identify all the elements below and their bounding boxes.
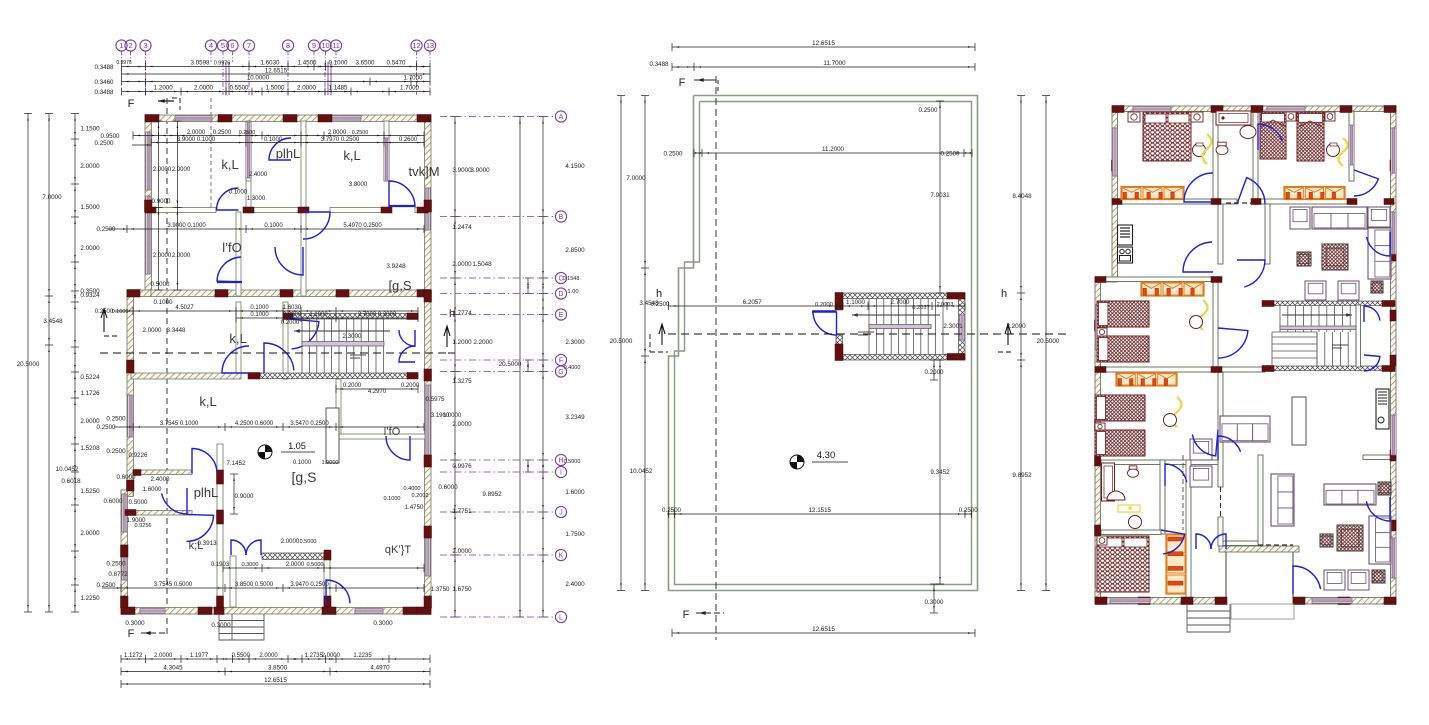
svg-text:0.1000: 0.1000	[383, 496, 400, 502]
svg-text:3.8500: 3.8500	[268, 665, 288, 672]
svg-text:0.2500: 0.2500	[239, 130, 256, 136]
grid bubble 1	[116, 40, 127, 51]
svg-text:0.4000: 0.4000	[403, 486, 420, 492]
door kL mid	[222, 346, 249, 373]
svg-text:2.0000: 2.0000	[154, 653, 173, 659]
svg-text:1: 1	[119, 41, 123, 50]
chimney duct	[326, 408, 339, 463]
rp door bath2	[1165, 464, 1187, 486]
svg-text:4.2500 0.6000: 4.2500 0.6000	[235, 421, 274, 427]
door lfO	[275, 247, 303, 275]
middle left chain	[644, 96, 646, 591]
middle plan inner outline	[675, 102, 972, 585]
rp bed2 single b	[1297, 112, 1324, 161]
rp window left 2	[1096, 305, 1101, 350]
svg-text:1.3000: 1.3000	[247, 196, 266, 202]
rp wall y199	[1117, 199, 1237, 204]
rp wall x1213	[1213, 111, 1218, 204]
svg-text:tvk]M: tvk]M	[408, 164, 439, 179]
svg-text:9.8952: 9.8952	[482, 491, 502, 498]
rp armchair pair 1	[1305, 281, 1326, 300]
svg-text:5.4970 0.2500: 5.4970 0.2500	[343, 223, 382, 229]
right chain inner	[454, 117, 456, 618]
stair rail	[302, 342, 384, 347]
svg-text:2.8500: 2.8500	[565, 247, 585, 254]
svg-text:11.7000: 11.7000	[823, 60, 846, 67]
left plan left wall lower	[121, 490, 128, 614]
svg-text:1.9000: 1.9000	[321, 460, 338, 466]
svg-text:1.00: 1.00	[567, 289, 578, 295]
datum 1.05	[258, 445, 272, 459]
svg-text:0.5500: 0.5500	[230, 85, 249, 92]
grid bubble 8	[282, 40, 293, 51]
column blocks left wall	[145, 200, 153, 212]
rp wardrobe 2	[1284, 187, 1345, 200]
svg-text:4.2970: 4.2970	[368, 389, 387, 395]
rp wall x1349	[1349, 111, 1354, 181]
door lfO2	[217, 257, 242, 282]
svg-text:2.0000: 2.0000	[259, 653, 278, 659]
svg-text:9.8952: 9.8952	[1012, 472, 1032, 479]
rp sofa3 mid	[1220, 416, 1270, 442]
wall V below M door	[230, 556, 236, 607]
svg-text:2.0000: 2.0000	[328, 130, 347, 136]
svg-text:2.0000: 2.0000	[452, 421, 472, 428]
wall V8 x218 bottom vertical	[217, 444, 223, 607]
window top wall 1	[175, 116, 212, 121]
rp sofa vert right2	[1369, 516, 1391, 564]
svg-text:0.1000: 0.1000	[264, 223, 283, 229]
svg-text:1.1500: 1.1500	[80, 126, 100, 133]
svg-text:0.9500: 0.9500	[101, 133, 120, 140]
rp seat c	[1190, 439, 1212, 460]
rp chair circle 5	[1129, 516, 1142, 529]
svg-text:20.5000: 20.5000	[610, 338, 633, 345]
svg-text:7.9031: 7.9031	[930, 192, 950, 199]
svg-text:4.4970: 4.4970	[370, 665, 390, 672]
grid bubble 10	[320, 40, 331, 51]
left plan stair top wall	[289, 314, 418, 320]
window left wall upper	[146, 132, 151, 190]
svg-text:0.2500: 0.2500	[662, 507, 681, 514]
rp nightstand 6	[1095, 423, 1105, 430]
grid bubble 9	[308, 40, 319, 51]
svg-text:I: I	[560, 470, 562, 477]
dim row y389	[336, 388, 418, 390]
svg-text:11: 11	[332, 41, 340, 50]
wall H6 y436 lfO bottom	[336, 434, 425, 439]
svg-text:0.2500: 0.2500	[97, 424, 116, 431]
svg-text:2.3000: 2.3000	[565, 339, 585, 346]
door plhL bottom 2	[162, 488, 187, 514]
rp window top 2	[1267, 107, 1305, 112]
svg-text:2.0000: 2.0000	[194, 85, 213, 92]
rp seat a	[1290, 207, 1310, 229]
svg-text:[g,S: [g,S	[292, 469, 317, 485]
svg-text:2.0003: 2.0003	[937, 302, 954, 308]
rp door bath top	[1258, 124, 1282, 150]
rp sink top	[1240, 126, 1256, 139]
door M double	[231, 540, 246, 555]
svg-text:1.7500: 1.7500	[565, 531, 585, 538]
svg-text:0.2000: 0.2000	[281, 320, 300, 326]
rp yellow door 1	[1203, 134, 1212, 164]
svg-text:2.2000: 2.2000	[473, 339, 493, 346]
middle stair bottom wall	[836, 355, 965, 361]
svg-text:l’fO: l’fO	[384, 426, 401, 438]
svg-text:1.05: 1.05	[288, 441, 306, 451]
rp blocks right wall	[1390, 160, 1396, 171]
svg-text:0.2500: 0.2500	[959, 507, 978, 514]
svg-text:13: 13	[426, 41, 434, 50]
bottom dim row 1	[121, 658, 430, 660]
svg-text:4.5027: 4.5027	[175, 305, 194, 311]
rp big double bed	[1097, 536, 1149, 592]
svg-text:2.0000: 2.0000	[452, 261, 472, 268]
svg-text:1.6000: 1.6000	[565, 489, 585, 496]
rp duct	[1292, 397, 1306, 445]
svg-text:0.5000: 0.5000	[299, 539, 316, 545]
svg-text:2.0000: 2.0000	[80, 530, 100, 537]
rp bathtub top	[1216, 111, 1251, 125]
left plan bottom wall	[121, 608, 431, 615]
rp porch slab	[1231, 604, 1294, 619]
middle stair arrow	[852, 314, 940, 316]
stair left plan risers	[301, 319, 303, 373]
svg-text:2.0000: 2.0000	[80, 418, 100, 425]
svg-text:0.1000: 0.1000	[250, 305, 269, 311]
middle bottom dim	[672, 632, 975, 634]
rp chair circle 1	[1193, 144, 1206, 157]
rp nightstand 3	[1286, 112, 1296, 121]
window top wall 2	[330, 116, 361, 121]
svg-text:3.2349: 3.2349	[565, 414, 585, 421]
svg-text:h: h	[656, 288, 662, 300]
svg-text:plhL: plhL	[276, 146, 301, 161]
svg-text:3.9000 0.1000: 3.9000 0.1000	[177, 137, 216, 143]
rp wall x1218 vert hall	[1218, 204, 1223, 264]
svg-text:3.8000: 3.8000	[349, 182, 368, 188]
svg-text:1.2235: 1.2235	[353, 653, 372, 659]
door stair entry	[289, 319, 319, 349]
grid bubble 11	[330, 40, 341, 51]
rp wall y545 center	[1223, 541, 1258, 546]
wall H kL bottom y510	[121, 511, 192, 516]
top dim row 1	[122, 66, 431, 68]
middle dim 7.9031	[939, 101, 941, 293]
svg-text:0.2500: 0.2500	[106, 561, 126, 568]
bottom dim row 3	[121, 683, 430, 685]
rp stair arrow	[1282, 314, 1352, 316]
rp side table 2	[1371, 281, 1383, 293]
svg-text:2.0000: 2.0000	[297, 85, 316, 92]
svg-text:0.1000: 0.1000	[112, 309, 129, 315]
rp toilet 2	[1128, 469, 1139, 478]
svg-text:0.2017: 0.2017	[912, 305, 930, 311]
svg-text:2.0000: 2.0000	[172, 167, 191, 173]
middle stair left wall	[836, 293, 843, 310]
rp yellow door 3	[1199, 300, 1208, 330]
svg-text:2.3000: 2.3000	[343, 333, 362, 340]
svg-text:1.5000: 1.5000	[266, 85, 285, 92]
rp fridge	[1118, 225, 1133, 245]
svg-text:0.1903: 0.1903	[211, 562, 230, 568]
svg-text:0.6018: 0.6018	[61, 478, 81, 485]
svg-text:4.1500: 4.1500	[565, 163, 585, 170]
wall V6 x241 kL mid right	[236, 302, 241, 373]
grid bubble 3	[140, 40, 151, 51]
rp nightstand 5	[1097, 328, 1107, 336]
rp window right 4	[1391, 538, 1396, 578]
door plhL bottom 1	[192, 449, 217, 474]
svg-text:2.0000: 2.0000	[153, 253, 172, 259]
middle stair door	[813, 312, 837, 336]
svg-text:1.7751: 1.7751	[452, 508, 472, 515]
rp door living right	[1366, 497, 1390, 521]
rp sink 2	[1107, 491, 1125, 500]
right chain 20.5000	[519, 117, 521, 618]
svg-text:1.2474: 1.2474	[452, 224, 472, 231]
middle stair dashes	[858, 331, 874, 333]
dim row y568	[223, 567, 424, 569]
svg-text:0.3488: 0.3488	[95, 64, 114, 71]
svg-text:0.2500: 0.2500	[941, 151, 960, 158]
svg-text:2.4000: 2.4000	[151, 476, 170, 483]
svg-text:0.1000: 0.1000	[154, 299, 173, 306]
right plan bottom wall left	[1095, 598, 1226, 605]
rp wall x1213b	[1213, 281, 1218, 367]
rp door bed4	[1192, 430, 1218, 456]
svg-text:20.5000: 20.5000	[17, 361, 40, 368]
svg-text:3.7545 0.5000: 3.7545 0.5000	[154, 582, 193, 588]
svg-text:3: 3	[143, 41, 147, 50]
windows bottom wall	[140, 609, 165, 614]
window right wall 3	[425, 538, 430, 576]
middle section dashed vertical	[715, 76, 717, 640]
svg-text:0.2000: 0.2000	[343, 383, 362, 389]
grid bubble 7	[243, 40, 254, 51]
svg-text:2.0000: 2.0000	[172, 253, 191, 259]
rp chair circle 3	[1190, 316, 1203, 329]
svg-text:7.0000: 7.0000	[626, 175, 646, 182]
svg-text:12.6515: 12.6515	[264, 677, 287, 684]
svg-text:0.5224: 0.5224	[80, 374, 100, 381]
rp window left 1	[1113, 128, 1118, 176]
svg-text:2.3001: 2.3001	[943, 323, 963, 330]
rp wall x1186	[1186, 460, 1191, 604]
svg-text:20.5000: 20.5000	[499, 361, 522, 368]
rp dashed opening 2	[1182, 455, 1184, 530]
svg-text:J: J	[559, 510, 563, 517]
svg-text:1.4500: 1.4500	[298, 60, 317, 67]
svg-text:0.2500: 0.2500	[106, 416, 126, 423]
door kL bottom	[187, 514, 214, 541]
svg-text:5: 5	[221, 41, 225, 50]
svg-text:7.0000: 7.0000	[42, 194, 62, 201]
svg-text:1.6030: 1.6030	[283, 305, 302, 311]
svg-text:K: K	[559, 553, 564, 560]
rp window right 2	[1391, 212, 1396, 254]
svg-text:2.0000: 2.0000	[143, 327, 162, 334]
svg-text:4: 4	[209, 41, 213, 50]
svg-text:0.1000: 0.1000	[293, 460, 312, 466]
rp door balcony	[1354, 170, 1378, 196]
rp wall y530	[1101, 530, 1161, 535]
svg-text:F: F	[128, 98, 135, 110]
svg-text:3.9000: 3.9000	[452, 167, 472, 174]
svg-text:1.1272: 1.1272	[124, 653, 143, 659]
svg-text:qK’}T: qK’}T	[385, 544, 412, 556]
rp wall y460	[1101, 460, 1218, 465]
wall H4 y553 hatch	[262, 553, 324, 560]
svg-text:0.6000: 0.6000	[117, 474, 136, 481]
svg-text:F: F	[128, 628, 135, 640]
svg-text:H: H	[558, 458, 563, 465]
rp blocks stair top	[1262, 301, 1274, 307]
door kL top-left	[217, 188, 239, 210]
rp blocks top wall	[1112, 106, 1124, 113]
rp toilet top	[1216, 145, 1228, 154]
rp sofa vert right	[1368, 228, 1391, 279]
svg-text:2.7000 0.2000: 2.7000 0.2000	[358, 312, 397, 318]
svg-text:[g,S: [g,S	[388, 278, 411, 293]
svg-text:2.0000: 2.0000	[153, 167, 172, 173]
svg-text:9.3452: 9.3452	[930, 469, 950, 476]
rp fridge 2	[1376, 389, 1389, 429]
column blocks interior bottom	[217, 470, 224, 484]
svg-text:1.7774: 1.7774	[452, 310, 472, 317]
svg-text:12.6515: 12.6515	[265, 68, 288, 75]
svg-text:1.3275: 1.3275	[452, 378, 472, 385]
svg-text:2: 2	[128, 41, 132, 50]
svg-text:0.3000: 0.3000	[373, 620, 393, 627]
grid line 12	[416, 62, 418, 95]
rp side table 1	[1297, 252, 1311, 266]
left plan step wall y490	[121, 490, 133, 497]
rp window bottom 1	[1110, 598, 1150, 603]
rp seat b	[1368, 207, 1390, 227]
middle top dim 12.6515	[672, 46, 975, 48]
rp stair lower flight	[1272, 336, 1317, 338]
window right wall 2	[425, 385, 430, 455]
wall H plhL top y470	[133, 470, 139, 475]
middle datum 4.30	[790, 455, 804, 469]
F section dashed line	[166, 98, 168, 637]
rp entrance steps	[1187, 604, 1230, 632]
grid dashed x211	[210, 98, 212, 207]
wall V7 x284 hall	[283, 302, 288, 379]
column blocks stair walls	[283, 313, 293, 320]
svg-text:0.9976: 0.9976	[116, 60, 132, 66]
svg-text:3.7970 0.2500: 3.7970 0.2500	[321, 137, 360, 143]
svg-text:1.1726: 1.1726	[80, 390, 100, 397]
window left wall lower	[122, 494, 127, 532]
wall V5 x306 gS left	[301, 212, 306, 296]
svg-text:0.3000: 0.3000	[125, 620, 145, 627]
left plan left wall upper	[145, 115, 152, 290]
svg-text:F: F	[559, 358, 563, 365]
rp dashed opening 3	[1258, 544, 1293, 546]
door tvkM	[389, 181, 415, 207]
rp wall x1265 hall	[1265, 204, 1270, 264]
svg-text:2.0000: 2.0000	[80, 245, 100, 252]
middle dim 9.3452	[939, 360, 941, 584]
svg-text:0.6000: 0.6000	[438, 484, 458, 491]
grid bubble 2	[125, 40, 136, 51]
wall H1 y207 upper rooms bottom	[151, 208, 216, 213]
rp door hall mid	[1237, 260, 1265, 287]
grid line 5-6 window shaft	[222, 62, 224, 95]
rp door bed1	[1184, 173, 1213, 202]
rp door y460	[1218, 436, 1241, 460]
rp window left 4	[1096, 548, 1101, 588]
svg-text:k,L: k,L	[343, 148, 360, 163]
rp sofa3 low right	[1324, 484, 1376, 505]
svg-text:0.9976: 0.9976	[452, 463, 472, 470]
svg-text:2.0000: 2.0000	[452, 548, 472, 555]
svg-text:C: C	[558, 276, 563, 283]
svg-text:0.3000: 0.3000	[925, 599, 944, 606]
svg-text:k,L: k,L	[199, 394, 216, 409]
middle section line h	[668, 333, 1070, 335]
svg-text:3.3448: 3.3448	[167, 327, 186, 334]
wall V2 x301 plhL-kL	[301, 121, 306, 208]
rp bathtub 2	[1102, 463, 1115, 501]
svg-text:4.30: 4.30	[817, 450, 836, 461]
rp door living low	[1293, 566, 1321, 594]
column blocks right wall	[424, 200, 432, 212]
rp wardrobe 5	[1166, 534, 1186, 594]
svg-text:1.2000: 1.2000	[452, 339, 472, 346]
rp wall x1253	[1253, 111, 1258, 204]
svg-text:1.2250: 1.2250	[80, 595, 100, 602]
svg-text:1.3750: 1.3750	[431, 586, 450, 593]
column blocks top wall	[145, 115, 159, 123]
left chain outer 20.5000	[27, 114, 29, 613]
svg-text:1.4750: 1.4750	[405, 504, 424, 511]
left plan right wall	[425, 115, 432, 614]
svg-text:2.0000: 2.0000	[80, 163, 100, 170]
rp nightstand 4	[1325, 112, 1335, 121]
right plan porch wall	[1219, 546, 1299, 552]
svg-text:0.2500: 0.2500	[919, 107, 938, 114]
rp wardrobe 1	[1121, 187, 1184, 200]
interior vertical chains left rooms	[158, 121, 160, 290]
rp door bed3	[1218, 328, 1248, 358]
svg-text:1.5208: 1.5208	[80, 445, 100, 452]
rp sofa3 top	[1312, 207, 1367, 229]
svg-text:0.3460: 0.3460	[95, 79, 114, 86]
wall V1 x246 kL-plhL	[246, 121, 251, 181]
bracket dims near bubbles	[527, 278, 529, 294]
rp nightstand 2	[1191, 112, 1203, 122]
wall V1b x246 lower	[246, 181, 251, 208]
svg-text:0.1000: 0.1000	[229, 190, 248, 196]
svg-text:0.5975: 0.5975	[426, 396, 445, 403]
rp stove	[1118, 247, 1133, 263]
svg-text:20.5000: 20.5000	[1037, 338, 1060, 345]
svg-text:3.7545 0.1000: 3.7545 0.1000	[160, 421, 199, 427]
grid bubble 5	[217, 40, 228, 51]
stair arrow	[294, 330, 390, 332]
svg-text:3.6500: 3.6500	[356, 60, 375, 67]
door plhL	[269, 138, 291, 160]
svg-text:0.5000: 0.5000	[151, 281, 170, 288]
rp door kitchen	[1183, 242, 1213, 272]
rp blocks bottom wall	[1095, 597, 1107, 605]
rp armchair pair 2	[1324, 570, 1345, 590]
svg-text:0.9000: 0.9000	[235, 493, 254, 500]
